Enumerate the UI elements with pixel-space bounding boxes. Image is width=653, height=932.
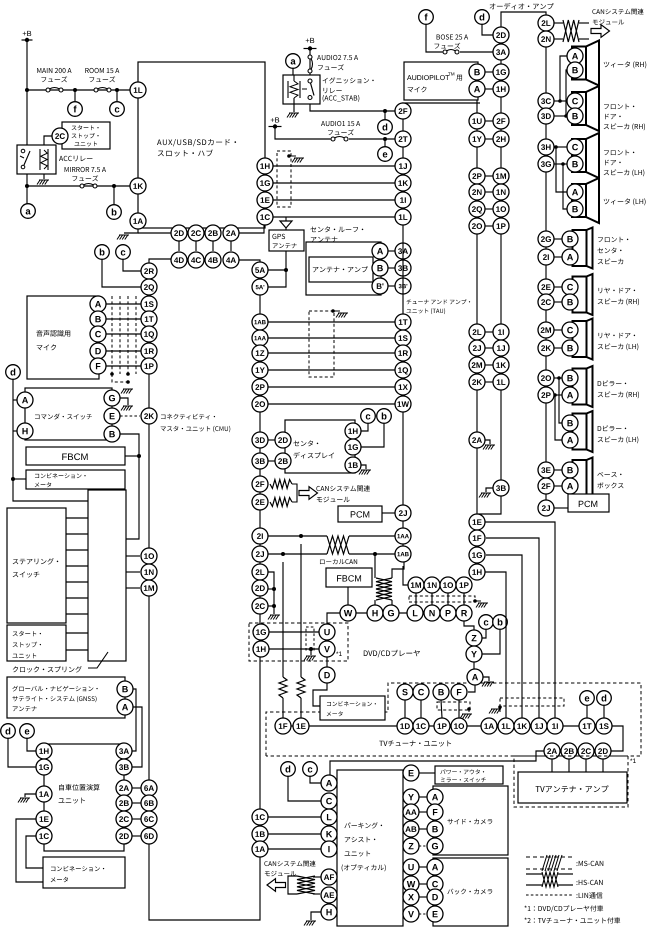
wire mic B-1T [106, 318, 143, 320]
box PCM 1 [338, 506, 382, 522]
wire 1S elbow down [611, 726, 623, 751]
label TV tuner [379, 740, 451, 746]
pin fc B [562, 231, 578, 247]
wire H to rail [13, 430, 17, 432]
pin TAU 1W [395, 396, 411, 412]
pin amp 2I [538, 249, 554, 265]
fuse AUDIO2 [308, 55, 313, 73]
wire 2L-2N braid [554, 20, 589, 42]
pin DVD N [424, 605, 440, 621]
wire 2A-6A [132, 787, 142, 789]
wire fdLH B [554, 162, 567, 166]
wire c to 1H disp [361, 424, 368, 431]
wire mic C-1Q [106, 333, 143, 335]
wire 1L-1C AUX-TAU rows [273, 166, 395, 217]
relay ACC contacts [20, 149, 30, 169]
label combination meter 1 [35, 473, 86, 487]
pin amp 2O3 [538, 370, 554, 386]
wire d3 stub [603, 706, 605, 718]
wire d to 1G [8, 738, 36, 767]
arrow CAN right top [591, 25, 610, 38]
pin TAU 2L2 [469, 324, 485, 340]
pin CMU 1R [141, 343, 157, 359]
shield TVt drain [460, 707, 472, 718]
pin pos 1E [36, 811, 52, 827]
wire CMU right rail [259, 264, 261, 857]
pin TAU 1M [408, 577, 424, 593]
label voice mic [36, 330, 70, 350]
pin DVD B2 [433, 684, 449, 700]
wire 1C2-L [268, 816, 321, 818]
pin 1C AUX [257, 209, 273, 225]
label front door LH [604, 150, 645, 177]
pin amp 2G [538, 231, 554, 247]
pin amp 2L [538, 15, 554, 31]
pin CMU 1P [141, 358, 157, 374]
wire X-D stub [419, 896, 427, 898]
wire 2P-1X [268, 386, 395, 388]
node a [21, 204, 36, 219]
pin park AA [403, 804, 419, 820]
pin TAU 2A2 [469, 432, 485, 448]
wire 1Y-1Q [268, 369, 395, 371]
wire bass B [554, 469, 562, 471]
wire 2B-4B [212, 240, 214, 251]
pin TAU 2M [469, 357, 485, 373]
wire AA-F stub [419, 811, 427, 813]
label ignition relay [323, 77, 374, 102]
pin TAU 1R [395, 345, 411, 361]
wire AB-B stub [419, 828, 427, 830]
node d top [475, 10, 490, 25]
wire twRH A [558, 56, 567, 103]
pin dpLH B [562, 415, 578, 431]
pin GNSS B [117, 681, 133, 697]
wire 1N stub [126, 571, 140, 573]
wire CAN bracket [292, 484, 297, 502]
pin 4C row [188, 252, 204, 268]
legend MS-CAN text [576, 861, 603, 866]
pin CMU 2Q [141, 279, 157, 295]
pin park AF [321, 869, 337, 885]
pin disp 1B [345, 457, 361, 473]
box start-stop unit 2 [7, 625, 66, 661]
pin amp 1I2 [493, 324, 509, 340]
wire +B to fuse1 [275, 126, 330, 139]
pin park AB [403, 821, 419, 837]
label rear door RH [598, 288, 639, 306]
pin CMU 1AA [252, 330, 268, 346]
wire R-Z elbow [464, 621, 474, 630]
pin TVt 1F [275, 718, 291, 734]
pin amp 3B2 [493, 480, 509, 496]
node d mic [6, 365, 21, 380]
node b CMU [95, 245, 110, 260]
label combination meter 3 [327, 701, 376, 716]
node b DVD [493, 615, 508, 630]
pin TAU 2N [469, 184, 485, 200]
label MAIN 200A [37, 68, 71, 82]
wire relay out to 2F [310, 104, 395, 113]
label tweeter RH [604, 61, 647, 68]
fuse AUDIO1 [330, 137, 348, 142]
pin pos 2A [116, 780, 132, 796]
pin cam E [427, 906, 443, 922]
wire 1O-P stub [447, 593, 449, 605]
wire mic D-1R [106, 350, 143, 352]
pin DVD W [340, 605, 356, 621]
node c park [303, 762, 318, 777]
shield AUX dashed [277, 151, 291, 207]
pin amp 1H [493, 81, 509, 97]
pin park AE [321, 887, 337, 903]
wire 1A to row [117, 229, 138, 240]
box GNSS antenna [7, 677, 125, 718]
pin dpRH B [562, 370, 578, 386]
wire 2E CAN zig [270, 498, 292, 507]
box PCM 2 [568, 494, 609, 512]
wire fdRH B [554, 115, 567, 117]
pin mic C [90, 326, 106, 342]
pin cam F [427, 804, 443, 820]
label bass box [597, 472, 623, 488]
relay ACC coil [40, 149, 48, 170]
speaker rear door LH [573, 319, 593, 360]
box combination meter 3 [320, 696, 385, 720]
wire TVtuner row [283, 725, 612, 727]
pin mic F [90, 358, 106, 374]
pin DVD C2 [413, 684, 429, 700]
pin CMU 2K [141, 408, 157, 424]
pin pos 1G [36, 759, 52, 775]
pin park Y [403, 789, 419, 805]
pin fdRH B [567, 108, 583, 124]
pin DVD Z [466, 630, 482, 646]
pin TAU 1H3 [469, 564, 485, 580]
label commander switch [35, 413, 92, 419]
label AUX/USB/SD hub [157, 139, 236, 157]
pin mic B [90, 311, 106, 327]
node d park [281, 762, 296, 777]
wire ant stubs [388, 251, 395, 286]
pin pos 3A [116, 743, 132, 759]
wire PCM-2J [382, 512, 395, 514]
power +B (main) [22, 31, 33, 42]
pin 1G AUX [257, 175, 273, 191]
pin 4D row [171, 252, 187, 268]
label parking assist [342, 822, 386, 871]
legend LIN line [526, 894, 573, 896]
pin TAU 2J2 [469, 340, 485, 356]
wire to f [74, 90, 76, 101]
legend HS-CAN zig [542, 872, 558, 887]
label audio amp [490, 3, 554, 10]
pin disp 2D [275, 432, 291, 448]
pin rdRH C [562, 279, 578, 295]
wire 2C to relay [44, 136, 52, 146]
pin amp 1M2 [493, 168, 509, 184]
shield TVt dashed [437, 702, 470, 710]
pin rdLH C [562, 322, 578, 338]
pin bass A [562, 478, 578, 494]
pin TAU 1AA [395, 528, 411, 544]
wire 1C to combo [26, 836, 43, 868]
pin can 1B [252, 826, 268, 842]
wire 2J-1AB [268, 552, 395, 556]
node e GNSS [20, 724, 35, 739]
label antenna amp [313, 266, 368, 272]
wire 2D-4D [178, 240, 180, 251]
pin cam B [427, 821, 443, 837]
node c DVD [479, 615, 494, 630]
pin TAU 1J [395, 158, 411, 174]
pin CMU 1H2 [253, 641, 269, 657]
pin CMU 1T [141, 311, 157, 327]
wire 1M-L stub [415, 593, 417, 605]
node f top [419, 10, 434, 25]
wire 2C amp stub [585, 759, 587, 772]
wire D to combo3 [313, 683, 327, 706]
box roof antenna [306, 242, 381, 295]
power +B audio1 [269, 117, 282, 128]
box TV tuner dashed [266, 683, 641, 756]
wire 4A to 5A [239, 260, 260, 264]
pin 2D row [171, 225, 187, 241]
wire 1P-R stub [463, 593, 465, 605]
pin TAU 2F2 [395, 103, 411, 119]
wire amp rail x501 [478, 27, 501, 514]
pin fdRH C [567, 93, 583, 109]
speaker tweeter LH [572, 178, 599, 223]
label clock spring [13, 652, 108, 672]
pin amp 2N [538, 31, 554, 47]
wire DVD B-1P [441, 700, 442, 718]
box AUX/USB/SD hub [138, 62, 265, 228]
wire G rail zig [392, 562, 404, 605]
label TV antenna amp [536, 785, 609, 792]
fuse BOSE 25A [442, 50, 459, 55]
pin amp 3E [538, 462, 554, 478]
pin TAU 1O [440, 577, 456, 593]
wire HG braid [376, 578, 392, 600]
wire G gnd [120, 398, 133, 411]
wire 1B gnd [359, 465, 371, 475]
pin DVD G [383, 605, 399, 621]
pin CMU 2R [141, 263, 157, 279]
wire speaker rail [545, 15, 547, 500]
shield 1A drain [489, 705, 502, 713]
pin can 1C [252, 809, 268, 825]
pin TAU 2Q [469, 201, 485, 217]
fuse MAIN 200A [45, 88, 63, 93]
wire c to Z [482, 630, 486, 638]
label side camera [447, 819, 492, 825]
relay ign contacts [302, 79, 314, 100]
label start-stop unit [72, 125, 99, 146]
pin CMU 1S [141, 296, 157, 312]
node c disp [361, 409, 376, 424]
wire 3D-2D [268, 439, 275, 441]
fuse MIRROR 7.5A [79, 184, 97, 189]
node c CMU [116, 245, 131, 260]
wire 1F right-down [486, 538, 539, 718]
wire 2J down to 1F2 [279, 562, 287, 718]
pin amp 1J2 [493, 340, 509, 356]
box ACC relay [17, 145, 56, 174]
pin TVa 2A [544, 743, 560, 759]
ground pos 1A [18, 794, 36, 803]
pin AP B [469, 64, 485, 80]
pin amp 2J3 [538, 500, 554, 516]
pin amp 3D [538, 108, 554, 124]
wire d5 to 2D [482, 24, 493, 35]
pin fdLH C [567, 139, 583, 155]
pin DVD H [367, 605, 383, 621]
wire AF-AE braid [288, 876, 321, 894]
braid local CAN [327, 536, 349, 554]
label D pillar LH [598, 425, 639, 443]
pin TVa 2B [561, 743, 577, 759]
pin amp 3A [493, 44, 509, 60]
pin TAU 1P [456, 577, 472, 593]
pin bass B [562, 462, 578, 478]
pin AP A [469, 81, 485, 97]
wire B to FBCM node [120, 434, 139, 539]
node d TVt [597, 691, 612, 706]
label center display [293, 440, 334, 458]
shield 1A dashed [500, 698, 564, 706]
pin pos 2C [116, 811, 132, 827]
pin pos 1A [36, 786, 52, 802]
pin amp 1O2 [493, 201, 509, 217]
shield AUX drain [287, 154, 304, 162]
wire 2J-PCM2 [554, 507, 568, 509]
pin amp 3G [538, 156, 554, 172]
wire 1E right-down [485, 522, 555, 718]
pin park A [321, 775, 337, 791]
pin 1L AUX [130, 82, 146, 98]
wire 1G-U [269, 631, 319, 633]
wire 1O stub [126, 555, 140, 557]
wire 1H-V [269, 647, 319, 661]
wire 2F CAN zig [270, 480, 292, 489]
wire U-A stub [419, 866, 427, 868]
wire e3 stub [586, 706, 588, 718]
pin TAU 1I [395, 192, 411, 208]
label power mirror switch [440, 769, 486, 782]
box parking assist [337, 770, 403, 926]
pin cam G [427, 838, 443, 854]
pin CMU 2J [252, 546, 268, 562]
wire 2L bracket [268, 572, 280, 620]
wire 2I down to 1E2 [297, 544, 305, 718]
wire 1B2-K [268, 833, 321, 835]
pin TAU 2P2 [469, 168, 485, 184]
wire 3B2 gnd [479, 488, 493, 498]
pin CMU 6B [141, 795, 157, 811]
pin DVD A [467, 669, 483, 685]
box combination meter 2 [43, 857, 125, 888]
pin cam D [427, 889, 443, 905]
pin TAU 1N [424, 577, 440, 593]
pin park C [321, 793, 337, 809]
pin TAU 1G3 [469, 547, 485, 563]
pin rdRH B [562, 294, 578, 310]
pin CMU 6C [141, 811, 157, 827]
wire +B to relay [309, 48, 311, 75]
pin TAU 2J [395, 505, 411, 521]
pin park Z [403, 838, 419, 854]
pin amp 1N2 [493, 184, 509, 200]
pin CMU 5A [252, 262, 268, 278]
pin pos 3B [116, 759, 132, 775]
node d audio [378, 120, 393, 135]
pin TVa 2D [595, 743, 611, 759]
wire W-C stub [419, 883, 427, 885]
wire DVD S-1D [404, 700, 406, 718]
box commander switch [25, 388, 112, 440]
pin pos 1C [36, 828, 52, 844]
wire H2 gnd [304, 912, 321, 926]
pin dpRH A [562, 387, 578, 403]
wire H rail zig [374, 554, 376, 605]
wire CMU left rail [149, 271, 260, 920]
wire 1AA-1S [268, 337, 395, 339]
wire 2O-1W [268, 403, 395, 405]
pin park K [321, 826, 337, 842]
shield DVD drain [473, 599, 488, 607]
wire A gnd [482, 677, 494, 687]
wire DVD F-1O [458, 700, 460, 718]
pin cam C [427, 876, 443, 892]
speaker front door RH [572, 86, 599, 131]
label back camera [447, 889, 492, 895]
wire mic A-1S [106, 303, 143, 305]
pin park U [403, 859, 419, 875]
node a relay [286, 54, 301, 69]
wire row to 2D [138, 232, 171, 234]
pin amp 3H [538, 139, 554, 155]
wire fuse-3A [460, 51, 493, 53]
node e audio [378, 147, 393, 162]
wire V-E stub LIN [419, 913, 427, 915]
wire d to A [13, 399, 17, 401]
wire 2I-1AA [268, 534, 395, 538]
pin twLH A [567, 184, 583, 200]
antenna GPS symbol [280, 217, 292, 230]
box position calc unit [44, 744, 124, 851]
pin ant B' [372, 278, 388, 294]
label FBCM [62, 453, 87, 460]
wire mirror fuse row [27, 185, 131, 187]
wire rdLH B [554, 347, 562, 349]
label tweeter LH [604, 198, 646, 205]
pin cmd B [104, 426, 120, 442]
junction mirror-b [112, 184, 116, 188]
wire twRH B [564, 70, 568, 118]
pin TAU 1L [395, 209, 411, 225]
pin park H [321, 904, 337, 920]
pin dpLH A [562, 432, 578, 448]
pin DVD R [456, 605, 472, 621]
label ROOM 15A [85, 68, 119, 82]
wire FBCM2-W [347, 587, 349, 605]
wire fuse row to 1L [27, 89, 131, 91]
wire rdLH C [554, 329, 562, 331]
pin DVD V [319, 641, 335, 657]
wire fdRH C [554, 100, 567, 102]
pin CMU 1Y [252, 362, 268, 378]
